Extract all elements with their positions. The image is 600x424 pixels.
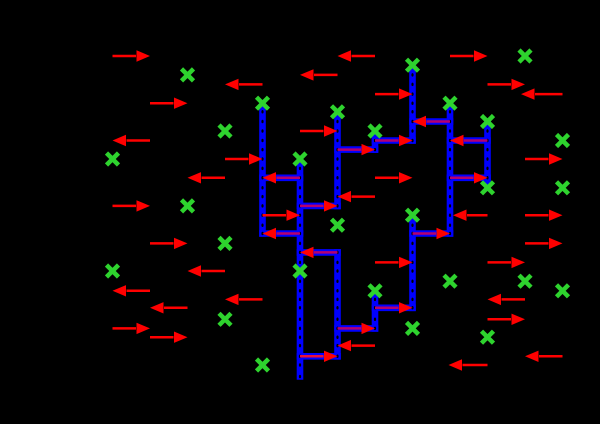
wire H2 horizontal tree segment xyxy=(300,203,338,210)
marker X7 xyxy=(219,125,231,137)
arrow A19 xyxy=(150,238,188,249)
marker X5 xyxy=(407,59,419,71)
marker X28 xyxy=(482,331,494,343)
marker X21 xyxy=(444,275,456,287)
arrow A25 xyxy=(525,210,563,221)
node dots on V1 xyxy=(261,101,263,235)
marker X15 xyxy=(182,200,194,212)
marker X17 xyxy=(219,237,231,249)
wire V4b vertical tree segment xyxy=(372,291,379,329)
arrow A30 xyxy=(150,332,188,343)
marker X3 xyxy=(519,50,531,62)
arrow A24 xyxy=(453,210,488,221)
wire H8 horizontal tree segment xyxy=(375,137,413,144)
marker X6 xyxy=(107,153,119,165)
arrow on H4 (tree edge pointer) xyxy=(300,247,338,258)
arrow A10 xyxy=(113,200,151,211)
wire H10 horizontal tree segment xyxy=(413,118,451,125)
arrow on H13 (tree edge pointer) xyxy=(450,172,488,183)
wire V6 vertical tree segment xyxy=(447,103,454,233)
arrow on H7 (tree edge pointer) xyxy=(338,323,376,334)
marker X14 xyxy=(557,182,569,194)
arrow on H12 (tree edge pointer) xyxy=(450,135,488,146)
arrow A34 xyxy=(449,359,488,370)
arrow A29 xyxy=(113,323,151,334)
marker X1 xyxy=(182,69,194,81)
wire H11 horizontal tree segment xyxy=(413,230,451,237)
node dots on V4b xyxy=(374,289,376,330)
arrow A3 xyxy=(338,50,376,61)
wire V3a vertical tree segment xyxy=(334,112,341,206)
node dots on V3b xyxy=(336,251,338,358)
arrow A27 xyxy=(488,257,526,268)
arrow A13 xyxy=(300,125,338,136)
arrow A21 xyxy=(225,294,263,305)
arrow on H3 (tree edge pointer) xyxy=(263,228,301,239)
marker X23 xyxy=(557,285,569,297)
arrow A15 xyxy=(375,172,413,183)
arrow A31 xyxy=(338,340,376,351)
arrow on H8 (tree edge pointer) xyxy=(375,135,413,146)
marker X27 xyxy=(257,359,269,371)
wire H13 horizontal tree segment xyxy=(450,175,488,182)
marker X19 xyxy=(332,219,344,231)
arrow A4 xyxy=(300,69,338,80)
arrow on H11 (tree edge pointer) xyxy=(413,228,451,239)
node dots on V3a xyxy=(336,110,338,208)
marker X24 xyxy=(219,313,231,325)
wire V2 vertical tree segment xyxy=(297,159,304,377)
node dots on V5a xyxy=(411,63,413,142)
marker X11 xyxy=(482,116,494,128)
node dots on V5b xyxy=(411,213,413,309)
arrow on H10 (tree edge pointer) xyxy=(413,116,451,127)
wire V5b vertical tree segment xyxy=(409,215,416,308)
marker X20 xyxy=(407,209,419,221)
node dots on V2 xyxy=(299,157,301,378)
node dots on V6 xyxy=(449,101,451,235)
marker X4 xyxy=(444,97,456,109)
arrow A5 xyxy=(375,88,413,99)
wire H9 horizontal tree segment xyxy=(375,304,413,311)
arrow A32 xyxy=(488,314,526,325)
arrow A9 xyxy=(113,135,151,146)
arrow A33 xyxy=(525,351,563,362)
arrow A18 xyxy=(113,285,151,296)
wire H3 horizontal tree segment xyxy=(263,230,301,237)
arrow A12 xyxy=(188,172,226,183)
wire V1 vertical tree segment xyxy=(259,103,266,233)
marker X10 xyxy=(369,125,381,137)
arrow on H2 (tree edge pointer) xyxy=(300,200,338,211)
arrow A23 xyxy=(375,257,413,268)
arrow A20 xyxy=(188,265,226,276)
wire H6 horizontal tree segment xyxy=(338,146,376,153)
arrow A22 xyxy=(150,302,188,313)
wire H1 horizontal tree segment xyxy=(263,175,301,182)
node dots on V4a xyxy=(374,129,376,151)
arrow on H9 (tree edge pointer) xyxy=(375,302,413,313)
marker X26 xyxy=(407,322,419,334)
wire H12 horizontal tree segment xyxy=(450,137,488,144)
marker X22 xyxy=(519,275,531,287)
arrow A17 xyxy=(263,210,301,221)
wire V3b vertical tree segment xyxy=(334,252,341,356)
arrow A8 xyxy=(521,88,563,99)
wire H5 horizontal tree segment xyxy=(300,353,338,360)
arrow A0 xyxy=(150,98,188,109)
arrow A2 xyxy=(225,79,263,90)
marker X12 xyxy=(557,135,569,147)
marker X18 xyxy=(294,265,306,277)
arrow A1 xyxy=(113,50,151,61)
wire H4 horizontal tree segment xyxy=(300,249,338,256)
marker X13 xyxy=(482,182,494,194)
arrow A7 xyxy=(488,79,526,90)
wire V5a vertical tree segment xyxy=(409,65,416,140)
arrow A28 xyxy=(488,294,526,305)
arrow A26 xyxy=(525,238,563,249)
wire V4a vertical tree segment xyxy=(372,131,379,150)
arrow A14 xyxy=(338,191,376,202)
arrow on H5 (tree edge pointer) xyxy=(300,351,338,362)
marker X8 xyxy=(294,153,306,165)
marker X9 xyxy=(332,106,344,118)
arrow A6 xyxy=(450,50,488,61)
marker X16 xyxy=(107,265,119,277)
arrow A16 xyxy=(525,153,563,164)
arrow on H1 (tree edge pointer) xyxy=(263,172,301,183)
wire V7 vertical tree segment xyxy=(484,122,491,188)
arrow on H6 (tree edge pointer) xyxy=(338,144,376,155)
marker X2 xyxy=(257,97,269,109)
node dots on V7 xyxy=(486,120,488,190)
marker X25 xyxy=(369,285,381,297)
arrow A11 xyxy=(225,153,263,164)
wire H7 horizontal tree segment xyxy=(338,325,376,332)
